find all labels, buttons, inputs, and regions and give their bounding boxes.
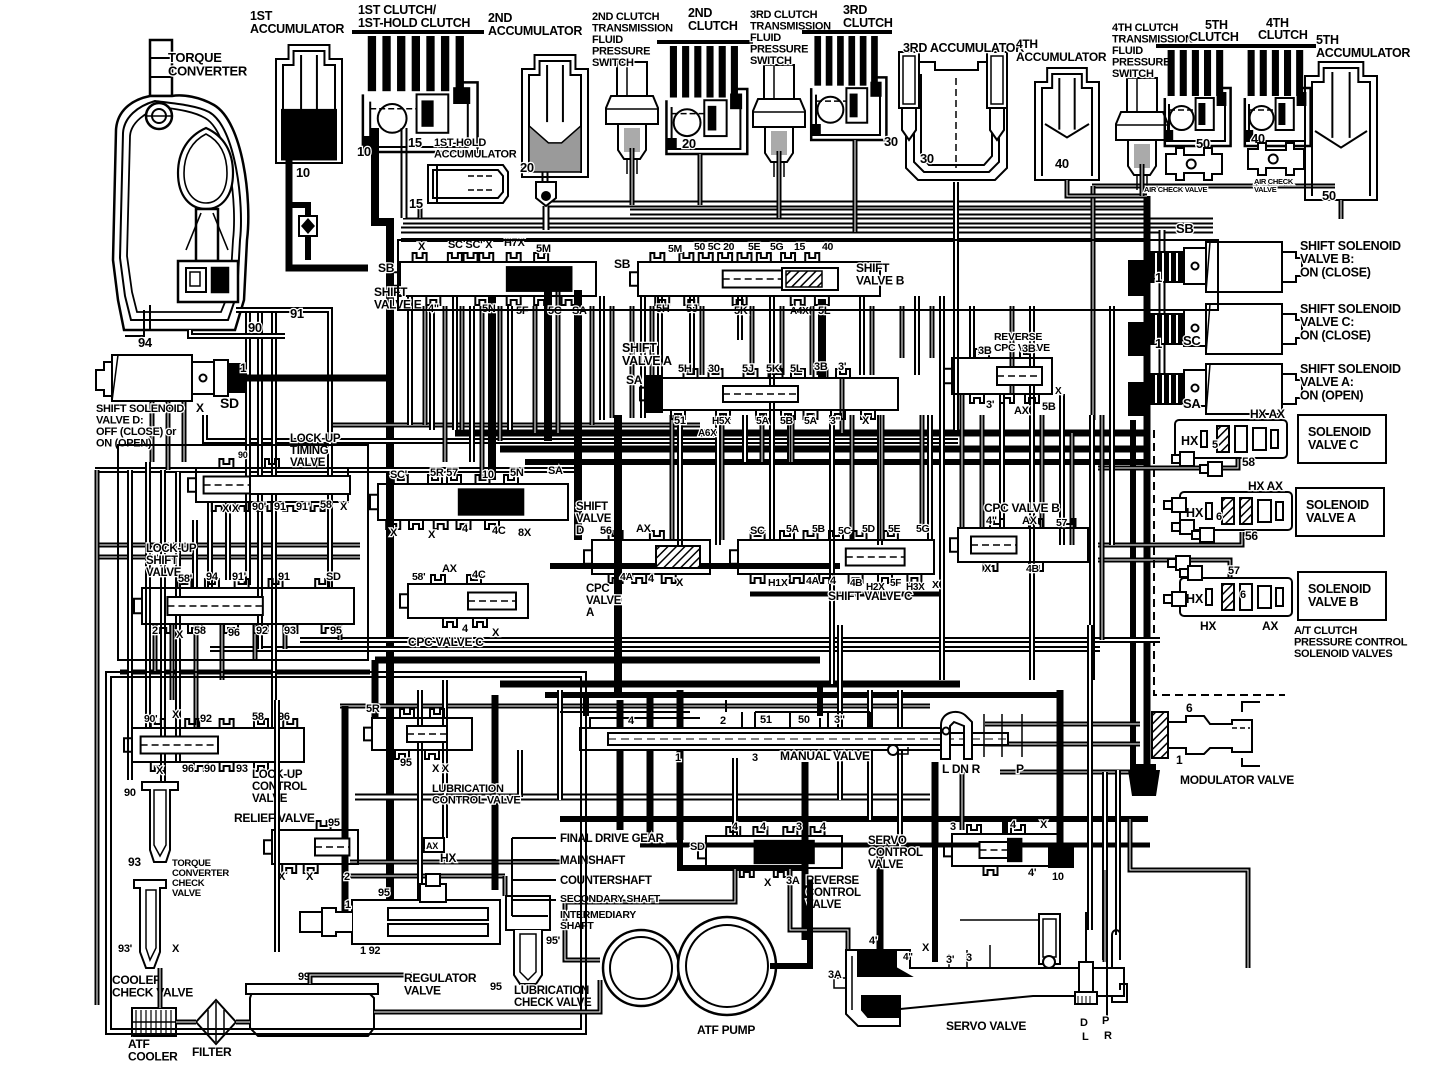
svg-text:SA: SA xyxy=(626,373,643,387)
svg-text:4A: 4A xyxy=(620,571,634,583)
svg-text:5A: 5A xyxy=(786,523,800,535)
wire left edge vertical x97 xyxy=(95,470,100,1005)
svg-text:X: X xyxy=(428,529,436,541)
svg-text:96: 96 xyxy=(228,627,240,639)
svg-text:CPC VALVE B: CPC VALVE B xyxy=(984,501,1060,515)
svg-text:3: 3 xyxy=(966,952,972,964)
wire 15 to accumulator xyxy=(418,205,423,218)
svg-text:HX: HX xyxy=(1181,434,1199,448)
svg-text:HX: HX xyxy=(1186,592,1204,606)
valve lock-up timing valve xyxy=(188,459,348,511)
wire reverse-servo link xyxy=(680,840,805,868)
svg-text:X: X xyxy=(340,501,348,513)
svg-text:90': 90' xyxy=(144,713,157,725)
svg-text:HX: HX xyxy=(1200,619,1216,633)
atf pump small circle xyxy=(603,930,679,1006)
enclosure check-valve sub-box vertical xyxy=(274,700,280,952)
wire hollow bus y470 xyxy=(95,467,580,473)
svg-text:ATF PUMP: ATF PUMP xyxy=(697,1023,755,1037)
svg-text:92: 92 xyxy=(256,625,268,637)
wire right trunk x1147 xyxy=(1144,196,1151,772)
valve shift valve D xyxy=(370,475,568,529)
svg-text:3B: 3B xyxy=(1022,343,1036,355)
svg-text:SA: SA xyxy=(1183,396,1201,411)
svg-text:90: 90 xyxy=(204,763,216,775)
servo valve assembly xyxy=(834,908,1127,1026)
svg-text:D: D xyxy=(1080,1017,1088,1029)
box solenoid valve B xyxy=(1298,572,1386,620)
wire 3A short link to servo valve xyxy=(790,868,848,968)
wire servo control drop xyxy=(1002,819,1008,834)
wire fat servo feed y845 xyxy=(640,843,1150,848)
wire fat segment y566 xyxy=(550,563,840,569)
clutch 3rd xyxy=(802,32,892,140)
svg-text:30: 30 xyxy=(708,363,720,375)
wire 58 link from solenoid valve C xyxy=(1098,455,1238,468)
svg-text:H1X: H1X xyxy=(768,577,788,589)
wire main pressure bus 2 (horizontal, y230) xyxy=(401,227,1213,234)
svg-text:96: 96 xyxy=(182,763,194,775)
svg-text:3": 3" xyxy=(830,415,841,427)
wire fat segment y594 xyxy=(750,592,942,597)
svg-text:X: X xyxy=(984,563,992,575)
svg-text:H3X: H3X xyxy=(906,582,925,593)
small connectors left of solenoid rows xyxy=(1172,452,1194,466)
svg-text:1: 1 xyxy=(1155,270,1162,285)
wire solenoid B/C/A black elbows xyxy=(1128,260,1150,296)
solenoid valve C assembly xyxy=(1175,420,1287,458)
svg-text:6: 6 xyxy=(1186,701,1193,715)
wire fat bus y819 xyxy=(560,816,1148,822)
svg-text:HX AX: HX AX xyxy=(1248,479,1283,493)
wire fat bus y684 xyxy=(500,681,960,688)
svg-text:4B: 4B xyxy=(850,578,862,589)
wire 5A bus fat y433 xyxy=(455,430,1145,437)
wire solenoid D feed fat xyxy=(245,375,390,382)
svg-text:MANUAL VALVE: MANUAL VALVE xyxy=(780,749,870,763)
svg-text:X: X xyxy=(862,415,870,427)
svg-text:20: 20 xyxy=(682,136,696,151)
accumulator 2nd xyxy=(522,55,588,177)
svg-text:5D: 5D xyxy=(862,523,876,535)
wire 3rd clutch drop xyxy=(853,140,858,232)
clutch 4th xyxy=(1236,46,1316,146)
svg-text:MAINSHAFT: MAINSHAFT xyxy=(560,855,625,867)
svg-text:51: 51 xyxy=(674,415,686,427)
svg-text:A4X: A4X xyxy=(790,306,809,317)
svg-text:H2X: H2X xyxy=(866,582,885,593)
svg-text:2: 2 xyxy=(720,715,726,727)
wire trunk x390 down to regulator xyxy=(386,500,394,905)
svg-text:X: X xyxy=(1040,819,1048,831)
svg-text:SC': SC' xyxy=(390,469,408,481)
svg-text:93: 93 xyxy=(128,855,141,869)
svg-text:5G: 5G xyxy=(916,523,930,535)
svg-text:3': 3' xyxy=(838,361,847,373)
valve manual valve xyxy=(560,700,1008,750)
svg-text:40: 40 xyxy=(1055,156,1069,171)
svg-text:5M: 5M xyxy=(536,243,551,255)
atf pump large circle xyxy=(678,917,776,1015)
svg-text:5M: 5M xyxy=(668,243,683,255)
shaft labels bracket xyxy=(512,838,556,916)
svg-text:3: 3 xyxy=(796,821,802,833)
black SA block at shift valve A xyxy=(645,375,663,413)
svg-text:SB: SB xyxy=(378,261,395,275)
svg-text:X: X xyxy=(196,401,204,415)
svg-text:5B: 5B xyxy=(780,415,794,427)
wire SD hollow bus y441 xyxy=(205,415,958,441)
svg-text:SC: SC xyxy=(1183,333,1201,348)
wire hollow trunk x1162 xyxy=(1159,230,1166,388)
valve relief valve xyxy=(264,821,358,873)
manual valve selector lever xyxy=(941,712,1022,759)
svg-text:AX: AX xyxy=(1262,619,1278,633)
svg-text:50 5C 20: 50 5C 20 xyxy=(694,241,735,253)
svg-text:1: 1 xyxy=(1155,336,1162,351)
svg-text:3B: 3B xyxy=(814,361,828,373)
svg-text:30: 30 xyxy=(884,134,898,149)
wire hollow bus y706 xyxy=(340,704,930,709)
valve shift valve C xyxy=(730,531,934,583)
valve lubrication check valve xyxy=(506,896,550,984)
svg-text:91: 91 xyxy=(290,306,304,321)
svg-text:AIR CHECK VALVE: AIR CHECK VALVE xyxy=(1144,185,1207,194)
svg-text:93': 93' xyxy=(118,943,133,955)
svg-text:4A: 4A xyxy=(806,575,820,587)
svg-text:X: X xyxy=(676,577,684,589)
svg-text:94: 94 xyxy=(206,571,219,583)
svg-text:3': 3' xyxy=(986,399,995,411)
accumulator 3rd xyxy=(899,52,1007,180)
svg-text:90': 90' xyxy=(252,501,267,513)
svg-text:95: 95 xyxy=(378,887,390,899)
svg-text:91: 91 xyxy=(278,571,290,583)
wire hollow bus y425 xyxy=(330,423,700,428)
wire second fat trunk x1133 xyxy=(1130,420,1136,770)
svg-text:CPC VALVE C: CPC VALVE C xyxy=(408,635,484,649)
svg-text:L DN R: L DN R xyxy=(942,762,981,776)
wire servo right verticals xyxy=(1103,870,1108,962)
svg-text:58: 58 xyxy=(194,625,206,637)
svg-text:MODULATOR VALVE: MODULATOR VALVE xyxy=(1180,773,1294,787)
svg-text:HX: HX xyxy=(1186,506,1204,520)
wire hollow y772 right xyxy=(1000,770,1147,775)
svg-text:95: 95 xyxy=(400,757,412,769)
atf cooler xyxy=(132,1008,176,1036)
enclosure lock-up box xyxy=(118,445,368,660)
svg-text:4": 4" xyxy=(903,952,913,963)
svg-text:95: 95 xyxy=(328,817,340,829)
svg-text:P: P xyxy=(1102,1015,1109,1027)
svg-text:1ST-HOLD CLUTCH: 1ST-HOLD CLUTCH xyxy=(358,16,470,30)
wire lockup region extra horizontals xyxy=(95,543,360,548)
svg-text:X: X xyxy=(390,527,398,539)
wire 5A2 bus fat y462 xyxy=(525,459,1145,465)
check valve under 2nd accumulator xyxy=(536,182,556,206)
svg-text:6: 6 xyxy=(1240,589,1246,601)
svg-text:90: 90 xyxy=(238,450,248,460)
svg-text:3': 3' xyxy=(946,954,955,966)
svg-text:3A: 3A xyxy=(828,969,842,981)
svg-text:X: X xyxy=(176,629,184,641)
svg-text:93: 93 xyxy=(284,625,296,637)
wire trunk 10 vertical (1st clutch to shift valve D) xyxy=(375,128,390,500)
wire trunk 10 (1st accumulator drop) xyxy=(289,158,368,268)
wire fat bus y695 xyxy=(545,692,1063,698)
wire 5B bus fat y449 xyxy=(500,446,1145,453)
wire from 3rd pressure switch xyxy=(777,151,782,218)
svg-text:51: 51 xyxy=(760,714,772,726)
svg-text:1: 1 xyxy=(240,361,247,375)
wire 4th accumulator drop xyxy=(1067,180,1147,196)
svg-text:5A: 5A xyxy=(804,415,818,427)
svg-text:5: 5 xyxy=(1212,439,1218,451)
wire air check valve line y186 xyxy=(1092,184,1335,189)
wire 99 pipe xyxy=(310,975,420,984)
accumulator 1st xyxy=(276,45,342,163)
svg-text:X: X xyxy=(932,579,939,591)
svg-text:58: 58 xyxy=(320,499,332,511)
svg-text:5TH: 5TH xyxy=(1316,33,1339,47)
svg-text:91: 91 xyxy=(274,501,286,513)
svg-text:95: 95 xyxy=(490,981,502,993)
box solenoid valve C xyxy=(1298,415,1386,463)
svg-text:1 92: 1 92 xyxy=(360,945,380,957)
svg-text:SD: SD xyxy=(220,395,239,411)
svg-text:91': 91' xyxy=(232,571,247,583)
svg-text:10: 10 xyxy=(482,469,494,481)
svg-text:X: X xyxy=(172,709,180,721)
wire manual valve lines xyxy=(583,695,589,716)
wire pump outlet xyxy=(770,880,810,966)
accumulator 5th xyxy=(1305,62,1377,200)
svg-text:X: X xyxy=(764,877,772,889)
valve CPC valve C xyxy=(400,575,528,627)
svg-text:56: 56 xyxy=(1245,529,1258,543)
svg-text:95': 95' xyxy=(546,935,561,947)
svg-text:94: 94 xyxy=(138,335,153,350)
svg-text:3: 3 xyxy=(752,752,758,764)
svg-text:1: 1 xyxy=(1176,753,1183,767)
shift solenoid valve A xyxy=(1150,364,1302,414)
valve lock-up control valve xyxy=(124,719,304,771)
svg-text:AX: AX xyxy=(1022,515,1038,527)
svg-text:X X: X X xyxy=(222,503,240,515)
pressure switch 2nd clutch xyxy=(606,62,658,174)
svg-text:58: 58 xyxy=(1242,455,1255,469)
svg-text:SD: SD xyxy=(690,841,705,853)
svg-text:SB: SB xyxy=(614,257,631,271)
enclosure shift-valve box xyxy=(398,240,1218,310)
svg-text:SD: SD xyxy=(326,571,341,583)
wire 91 from torque converter xyxy=(236,310,330,340)
valve reverse control valve xyxy=(698,827,842,877)
wire bottom verticals xyxy=(342,706,349,930)
wire from 4th pressure switch xyxy=(1140,164,1145,196)
valve CPC valve B xyxy=(950,519,1088,571)
reservoir pan xyxy=(246,984,378,1036)
wire 2nd clutch drop xyxy=(698,154,703,205)
modulator black connector xyxy=(1128,770,1160,796)
svg-text:58': 58' xyxy=(178,573,193,585)
wire 5th accumulator drop xyxy=(1339,200,1344,219)
circle O near manual valve xyxy=(888,745,898,755)
check valve on 94 branch xyxy=(289,205,308,260)
torque converter xyxy=(113,40,248,336)
air check valve left xyxy=(1166,148,1222,180)
svg-text:30: 30 xyxy=(920,151,934,166)
svg-text:X: X xyxy=(418,241,426,253)
svg-text:1ST CLUTCH/: 1ST CLUTCH/ xyxy=(358,3,437,17)
valve shift valve B xyxy=(630,253,880,305)
wire 2nd clutch feed (horizontal, y204) xyxy=(548,201,1147,208)
svg-text:AX: AX xyxy=(442,563,458,575)
valve CPC valve A xyxy=(584,531,710,583)
svg-text:4C: 4C xyxy=(492,525,506,537)
svg-text:10: 10 xyxy=(357,144,371,159)
svg-text:HX AX: HX AX xyxy=(1250,407,1285,421)
svg-text:SECONDARY SHAFT: SECONDARY SHAFT xyxy=(560,893,661,905)
svg-text:92: 92 xyxy=(200,713,212,725)
wire extra verticals center web xyxy=(423,306,428,425)
valve servo control valve xyxy=(944,825,1062,875)
wire manual valve right links xyxy=(985,722,1140,727)
svg-text:ACCUMULATOR: ACCUMULATOR xyxy=(1016,50,1107,64)
solenoid valve A assembly xyxy=(1180,492,1292,530)
svg-text:57: 57 xyxy=(1228,565,1240,577)
valve lubrication control valve xyxy=(364,709,472,759)
wire 57 link to solenoid valve B xyxy=(1098,560,1230,578)
wire 3rd accumulator drop xyxy=(953,182,959,430)
shift solenoid valve D xyxy=(96,355,246,401)
svg-text:R: R xyxy=(1104,1030,1112,1042)
valve shift valve E xyxy=(392,253,596,305)
wire 3A to servo valve xyxy=(565,868,735,960)
accumulator 1st-hold (horizontal) xyxy=(428,165,508,203)
wire hollow bus y649 xyxy=(210,646,1100,652)
svg-text:5G: 5G xyxy=(770,241,784,253)
wire verticals below solenoid D xyxy=(150,400,155,462)
svg-text:10: 10 xyxy=(296,165,310,180)
svg-text:ACCUMULATOR: ACCUMULATOR xyxy=(1316,46,1410,60)
svg-text:4": 4" xyxy=(986,515,997,527)
air check valve right xyxy=(1248,143,1304,175)
svg-text:3": 3" xyxy=(834,714,845,726)
svg-text:3A: 3A xyxy=(786,875,800,887)
wire verticals below lock-up shift valve xyxy=(153,624,158,672)
wire verticals shift valves to bus xyxy=(407,296,413,425)
wire hollow bus y640 xyxy=(300,637,1160,643)
svg-text:5L: 5L xyxy=(790,363,803,375)
valve shift valve A xyxy=(640,369,898,419)
svg-text:1: 1 xyxy=(675,752,681,764)
wire 3rd clutch feed (horizontal, y212) xyxy=(630,209,1147,216)
pressure switch 4th clutch xyxy=(1116,78,1168,190)
svg-text:5C: 5C xyxy=(838,525,852,537)
wire from 2nd pressure switch xyxy=(630,148,635,205)
svg-text:5E: 5E xyxy=(888,523,901,535)
accumulator 4th xyxy=(1035,68,1099,180)
wire left verticals lockup area xyxy=(127,470,133,780)
svg-text:3RD ACCUMULATOR: 3RD ACCUMULATOR xyxy=(903,41,1024,55)
svg-text:4': 4' xyxy=(1028,867,1037,879)
pressure switch 3rd clutch xyxy=(753,65,805,177)
svg-text:CLUTCH: CLUTCH xyxy=(1189,30,1239,44)
svg-text:SC: SC xyxy=(750,525,765,537)
wire 20 drop from 2nd accumulator xyxy=(542,160,549,182)
svg-text:5A: 5A xyxy=(756,415,770,427)
enclosure bottom-left box xyxy=(106,672,586,1034)
shift solenoid valve C xyxy=(1150,304,1302,354)
clutch 5th xyxy=(1156,46,1236,146)
cooler check valve xyxy=(134,880,166,968)
svg-text:5R 57: 5R 57 xyxy=(430,467,458,479)
svg-text:SERVO VALVE: SERVO VALVE xyxy=(946,1019,1026,1033)
svg-text:50: 50 xyxy=(1322,188,1336,203)
svg-text:5N: 5N xyxy=(510,467,524,479)
svg-text:L: L xyxy=(1082,1031,1089,1043)
svg-text:X: X xyxy=(492,627,500,639)
valve regulator valve xyxy=(300,874,500,944)
modulator valve xyxy=(1152,702,1260,766)
svg-text:91': 91' xyxy=(296,501,311,513)
small AX connector above regulator xyxy=(424,838,444,852)
svg-text:X X: X X xyxy=(432,763,450,775)
solenoid valve B assembly xyxy=(1180,578,1292,616)
svg-text:SA: SA xyxy=(548,465,563,477)
wire hollow vertical x1093 xyxy=(1091,186,1096,420)
svg-text:3: 3 xyxy=(950,821,956,833)
valve reverse CPC valve xyxy=(944,349,1052,403)
svg-text:VALVE B: VALVE B xyxy=(1308,595,1358,609)
svg-text:5H: 5H xyxy=(678,363,692,375)
torque converter check valve xyxy=(142,782,178,862)
svg-text:SOLENOID: SOLENOID xyxy=(1306,498,1369,512)
svg-text:X: X xyxy=(1055,386,1062,397)
svg-text:AX: AX xyxy=(426,841,438,851)
svg-text:56: 56 xyxy=(600,525,612,537)
svg-text:H5X: H5X xyxy=(712,416,731,427)
wire 90 from torque converter xyxy=(190,330,285,336)
svg-text:COUNTERSHAFT: COUNTERSHAFT xyxy=(560,875,652,887)
svg-text:AX: AX xyxy=(1014,405,1030,417)
svg-text:2: 2 xyxy=(344,871,350,883)
wire bus y797 hollow xyxy=(355,794,930,801)
wire bottom extra xyxy=(350,860,560,865)
svg-text:40: 40 xyxy=(822,241,834,253)
svg-text:15: 15 xyxy=(408,135,422,150)
svg-text:5K: 5K xyxy=(766,363,780,375)
svg-text:FILTER: FILTER xyxy=(192,1045,232,1059)
svg-text:58: 58 xyxy=(252,711,264,723)
svg-text:AX: AX xyxy=(636,523,652,535)
wire fat bus y660 xyxy=(375,657,820,664)
svg-text:H7X: H7X xyxy=(504,237,525,249)
filter xyxy=(196,1000,236,1044)
svg-text:SOLENOID: SOLENOID xyxy=(1308,582,1371,596)
svg-text:8X: 8X xyxy=(518,527,532,539)
svg-text:3B: 3B xyxy=(978,345,992,357)
svg-text:15: 15 xyxy=(409,196,423,211)
svg-text:6: 6 xyxy=(1216,511,1222,523)
svg-text:1: 1 xyxy=(345,899,351,911)
svg-text:90: 90 xyxy=(124,787,136,799)
svg-text:5B: 5B xyxy=(1042,401,1056,413)
svg-text:X: X xyxy=(306,871,314,883)
valve lock-up shift valve xyxy=(134,579,354,633)
box solenoid valve A xyxy=(1296,488,1384,536)
